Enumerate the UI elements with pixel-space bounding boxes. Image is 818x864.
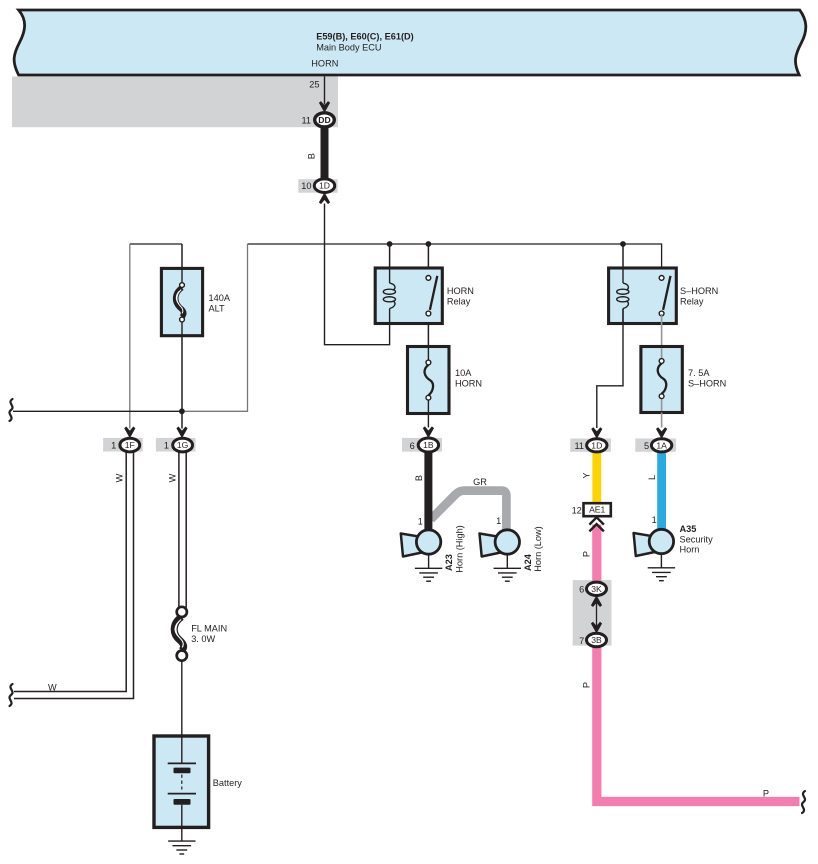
horn A24 (Low) xyxy=(480,526,544,581)
svg-text:HORN: HORN xyxy=(311,59,338,69)
wire P connector 3B off-page right xyxy=(582,640,800,802)
horn A35 Security Horn xyxy=(634,524,713,581)
svg-text:W: W xyxy=(48,682,57,692)
junction dot at ALT/1G xyxy=(179,408,185,414)
svg-text:L: L xyxy=(647,475,657,480)
wire B (thick) connector DD to 1D xyxy=(307,120,325,186)
svg-text:Relay: Relay xyxy=(680,297,704,307)
inline pair arrows between 3K and 3B xyxy=(591,595,602,633)
wire bus to S-HORN relay coil xyxy=(622,244,624,269)
svg-text:DD: DD xyxy=(318,115,330,125)
junction dot HORN relay coil xyxy=(387,241,393,247)
wire ECU pin 25 to connector DD xyxy=(309,77,330,113)
svg-text:1: 1 xyxy=(164,441,169,451)
connector 1D pin 10 xyxy=(301,179,334,193)
off-page squiggle left (W wire) xyxy=(9,684,12,706)
svg-text:10A: 10A xyxy=(455,368,472,378)
svg-text:12: 12 xyxy=(572,506,582,516)
svg-text:6: 6 xyxy=(579,585,584,595)
svg-text:1: 1 xyxy=(418,517,423,527)
svg-text:7. 5A: 7. 5A xyxy=(688,368,710,378)
svg-text:Main Body ECU: Main Body ECU xyxy=(316,42,381,52)
ground below battery xyxy=(168,841,195,854)
gray box at connector 1D (second) xyxy=(570,439,611,452)
svg-text:1A: 1A xyxy=(656,440,667,450)
gray box at connector 1A xyxy=(635,439,676,452)
svg-text:1: 1 xyxy=(111,441,116,451)
connector 1A pin 5 xyxy=(644,439,672,452)
gray band behind ECU pin row xyxy=(12,77,338,128)
svg-text:S–HORN: S–HORN xyxy=(688,379,726,389)
svg-text:3. 0W: 3. 0W xyxy=(191,634,215,644)
gray box at connector 1B xyxy=(402,438,442,452)
connector AE1 pin 12 xyxy=(572,503,611,516)
relay HORN Relay xyxy=(375,268,474,324)
fuse 10A HORN xyxy=(408,347,483,414)
svg-text:Relay: Relay xyxy=(447,297,471,307)
wire B (thick) 1B to horn A23 xyxy=(414,445,428,531)
svg-text:Security: Security xyxy=(680,535,714,545)
svg-text:P: P xyxy=(582,551,592,557)
connector 1D (second) pin 11 xyxy=(574,439,607,452)
svg-text:A35: A35 xyxy=(680,524,697,534)
svg-text:S–HORN: S–HORN xyxy=(680,286,718,296)
gray internal wire 7.5A fuse to connector 1A xyxy=(656,413,667,439)
fusible link FL MAIN 3.0W xyxy=(174,607,227,661)
svg-text:P: P xyxy=(582,682,592,688)
wire L connector 1A to horn A35 xyxy=(647,445,662,531)
svg-text:A24: A24 xyxy=(523,553,533,571)
wire 1F/ALT top link xyxy=(130,243,182,245)
svg-text:3B: 3B xyxy=(591,635,602,645)
svg-text:10: 10 xyxy=(301,181,311,191)
wire Y connector 1D to AE1 xyxy=(581,445,596,504)
svg-text:B: B xyxy=(414,475,424,481)
svg-text:1D: 1D xyxy=(591,440,602,450)
svg-text:1F: 1F xyxy=(125,440,135,450)
svg-text:1G: 1G xyxy=(177,440,189,450)
wire S-HORN relay coil to connector 1D xyxy=(597,309,623,428)
junction dot HORN relay switch xyxy=(426,241,432,247)
svg-text:W: W xyxy=(167,473,177,482)
svg-text:Horn (Low): Horn (Low) xyxy=(533,526,543,571)
wire down to 1F xyxy=(129,244,131,429)
gray box at connector 1F xyxy=(103,438,143,452)
svg-text:7: 7 xyxy=(579,636,584,646)
svg-text:FL MAIN: FL MAIN xyxy=(191,624,227,634)
chevrons below AE1 xyxy=(589,517,604,531)
wire GR horn A23 to horn A24 xyxy=(431,477,507,531)
wire FL MAIN to battery xyxy=(181,661,183,736)
gray internal wire S-HORN switch to 7.5A fuse xyxy=(661,314,663,361)
svg-text:5: 5 xyxy=(644,441,649,451)
wire off-page to bus riser xyxy=(13,244,248,411)
svg-text:Battery: Battery xyxy=(213,778,243,788)
off-page squiggle left xyxy=(9,399,12,421)
wire 10A fuse to connector 1B xyxy=(423,414,434,439)
gray box at connector 1G xyxy=(156,438,196,452)
arrow into connector 1D (second) xyxy=(591,427,602,439)
svg-text:Y: Y xyxy=(581,472,591,478)
svg-text:HORN: HORN xyxy=(447,286,474,296)
battery xyxy=(154,736,242,841)
connector 1F pin 1 xyxy=(111,438,140,452)
wire W (hollow) 1F down and off-page left xyxy=(14,452,134,699)
connector DD pin 11 xyxy=(301,113,334,127)
arrow into connector 1F xyxy=(124,427,135,439)
off-page squiggle right (P wire) xyxy=(802,791,805,813)
svg-text:140A: 140A xyxy=(209,293,231,303)
arrow up into 1D and wire to HORN relay coil xyxy=(319,192,390,344)
svg-text:E59(B), E60(C), E61(D): E59(B), E60(C), E61(D) xyxy=(316,32,414,42)
junction dot S-HORN relay coil xyxy=(620,241,626,247)
svg-text:11: 11 xyxy=(301,115,311,125)
gray box at connectors 3K/3B xyxy=(573,580,612,646)
Main Body ECU block E59(B) E60(C) E61(D) xyxy=(14,10,806,75)
fuse 140A ALT xyxy=(161,268,230,335)
wire HORN relay switch to 10A fuse xyxy=(427,314,429,347)
connector 1G pin 1 xyxy=(164,438,193,452)
main power bus wire xyxy=(248,244,662,276)
fuse 7.5A S-HORN xyxy=(641,347,726,413)
wire bus to HORN relay coil xyxy=(389,244,391,269)
wire ALT to bus xyxy=(181,244,183,269)
svg-text:3K: 3K xyxy=(591,584,602,594)
svg-text:1: 1 xyxy=(496,516,501,526)
horn A23 (High) xyxy=(401,525,465,581)
svg-text:HORN: HORN xyxy=(455,379,482,389)
wire ALT to 1G xyxy=(181,336,183,429)
connector 3B pin 7 xyxy=(579,633,606,646)
wire W (hollow) 1G to FL MAIN xyxy=(167,452,186,608)
wire P AE1 to connector 3K xyxy=(582,525,597,590)
relay S-HORN Relay xyxy=(609,268,719,324)
svg-text:1B: 1B xyxy=(423,440,434,450)
svg-text:25: 25 xyxy=(309,80,319,90)
svg-text:6: 6 xyxy=(410,441,415,451)
svg-text:1D: 1D xyxy=(319,181,330,191)
svg-text:11: 11 xyxy=(574,441,584,451)
svg-text:AE1: AE1 xyxy=(589,505,605,515)
svg-text:P: P xyxy=(763,789,769,799)
svg-text:Horn (High): Horn (High) xyxy=(455,525,465,572)
svg-text:W: W xyxy=(115,473,125,482)
svg-text:Horn: Horn xyxy=(680,545,700,555)
svg-text:GR: GR xyxy=(473,477,487,487)
gray box at connector 1D xyxy=(298,179,337,193)
svg-text:ALT: ALT xyxy=(209,304,226,314)
svg-text:1: 1 xyxy=(652,515,657,525)
connector 1B pin 6 xyxy=(410,438,439,452)
svg-text:B: B xyxy=(307,153,317,159)
wire bus to HORN relay switch xyxy=(427,244,429,276)
svg-text:A23: A23 xyxy=(444,554,454,571)
connector 3K pin 6 xyxy=(579,582,606,595)
arrow into connector 1G xyxy=(176,427,187,439)
